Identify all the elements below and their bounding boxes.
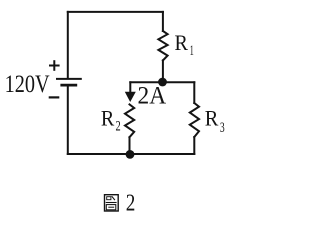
- svg-text:2: 2: [116, 119, 121, 135]
- svg-text:1: 1: [190, 43, 194, 59]
- svg-text:R: R: [175, 30, 188, 55]
- svg-text:120V: 120V: [5, 71, 50, 98]
- svg-text:R: R: [205, 106, 219, 131]
- svg-text:2A: 2A: [138, 83, 167, 110]
- svg-text:R: R: [101, 106, 114, 131]
- svg-text:3: 3: [220, 120, 225, 136]
- svg-text:2: 2: [126, 190, 136, 216]
